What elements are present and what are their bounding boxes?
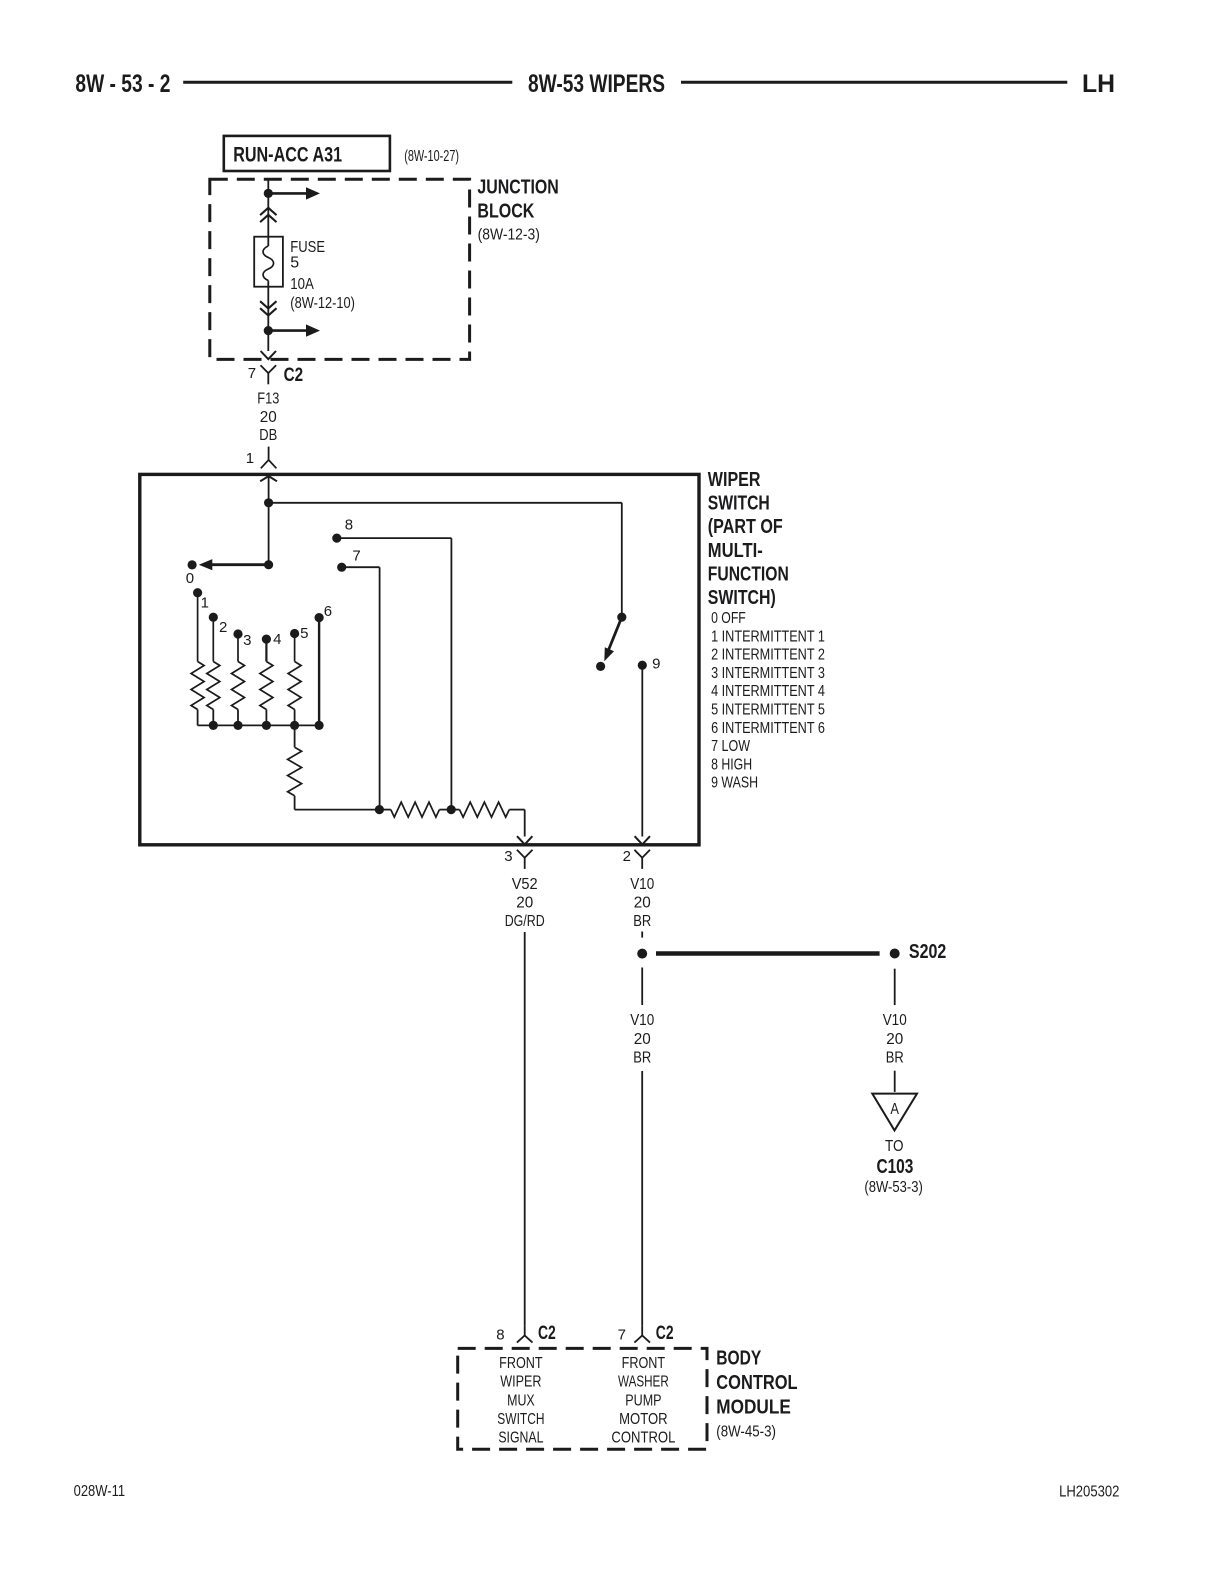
svg-text:20: 20 — [634, 895, 651, 912]
svg-text:3: 3 — [243, 632, 251, 649]
svg-text:CONTROL: CONTROL — [716, 1372, 797, 1394]
svg-text:JUNCTION: JUNCTION — [477, 176, 558, 198]
svg-text:S202: S202 — [909, 941, 946, 963]
svg-text:0 OFF: 0 OFF — [711, 610, 746, 627]
svg-text:20: 20 — [516, 895, 533, 912]
svg-text:8W - 53 - 2: 8W - 53 - 2 — [75, 70, 170, 98]
svg-text:9 WASH: 9 WASH — [711, 775, 758, 792]
svg-text:CONTROL: CONTROL — [611, 1430, 675, 1447]
svg-text:C2: C2 — [284, 365, 304, 386]
svg-text:C2: C2 — [538, 1323, 556, 1344]
svg-text:MUX: MUX — [507, 1392, 535, 1409]
svg-text:1: 1 — [201, 594, 209, 611]
svg-text:DG/RD: DG/RD — [505, 913, 545, 930]
svg-text:(8W-53-3): (8W-53-3) — [864, 1179, 922, 1196]
svg-text:SWITCH: SWITCH — [497, 1411, 544, 1428]
svg-text:PUMP: PUMP — [625, 1392, 661, 1409]
svg-text:DB: DB — [259, 427, 277, 444]
svg-text:1: 1 — [246, 450, 254, 467]
svg-text:10A: 10A — [290, 276, 314, 293]
svg-text:3: 3 — [504, 848, 512, 865]
svg-text:SIGNAL: SIGNAL — [498, 1430, 543, 1447]
svg-text:6: 6 — [324, 603, 332, 620]
svg-text:A: A — [890, 1101, 899, 1118]
svg-text:2 INTERMITTENT 2: 2 INTERMITTENT 2 — [711, 647, 825, 664]
svg-text:V10: V10 — [630, 876, 654, 893]
svg-text:7: 7 — [618, 1326, 626, 1343]
svg-text:(8W-12-3): (8W-12-3) — [478, 226, 540, 243]
svg-text:1 INTERMITTENT 1: 1 INTERMITTENT 1 — [711, 628, 825, 645]
svg-text:7 LOW: 7 LOW — [711, 738, 751, 755]
svg-text:3 INTERMITTENT 3: 3 INTERMITTENT 3 — [711, 665, 825, 682]
svg-text:(8W-10-27): (8W-10-27) — [404, 148, 459, 165]
svg-text:F13: F13 — [257, 390, 279, 407]
svg-text:7: 7 — [248, 365, 256, 382]
svg-text:LH: LH — [1082, 70, 1115, 98]
svg-text:(PART OF: (PART OF — [708, 516, 783, 538]
svg-text:MOTOR: MOTOR — [619, 1411, 668, 1428]
svg-text:V10: V10 — [630, 1012, 654, 1029]
svg-text:4 INTERMITTENT 4: 4 INTERMITTENT 4 — [711, 683, 825, 700]
svg-text:20: 20 — [260, 409, 277, 426]
svg-text:BR: BR — [633, 1049, 651, 1066]
svg-text:FRONT: FRONT — [622, 1355, 666, 1372]
svg-text:(8W-12-10): (8W-12-10) — [290, 295, 355, 312]
svg-text:9: 9 — [652, 656, 660, 673]
svg-text:SWITCH: SWITCH — [708, 493, 770, 515]
svg-text:LH205302: LH205302 — [1059, 1484, 1119, 1501]
svg-text:V10: V10 — [883, 1012, 907, 1029]
svg-text:8: 8 — [496, 1326, 504, 1343]
svg-text:2: 2 — [623, 848, 631, 865]
svg-text:20: 20 — [886, 1031, 903, 1048]
svg-text:8W-53 WIPERS: 8W-53 WIPERS — [528, 70, 665, 98]
svg-text:MULTI-: MULTI- — [708, 540, 763, 562]
svg-text:FRONT: FRONT — [499, 1355, 543, 1372]
svg-text:RUN-ACC A31: RUN-ACC A31 — [233, 144, 342, 167]
svg-text:5: 5 — [300, 625, 308, 642]
svg-text:FUNCTION: FUNCTION — [708, 563, 789, 585]
svg-text:5: 5 — [290, 255, 299, 272]
svg-text:2: 2 — [219, 619, 227, 636]
svg-text:BR: BR — [633, 913, 651, 930]
svg-text:BLOCK: BLOCK — [477, 200, 534, 222]
svg-text:7: 7 — [352, 548, 360, 565]
svg-text:MODULE: MODULE — [716, 1396, 791, 1418]
svg-text:BR: BR — [886, 1049, 904, 1066]
svg-text:028W-11: 028W-11 — [74, 1483, 126, 1500]
svg-text:(8W-45-3): (8W-45-3) — [716, 1424, 776, 1441]
svg-text:5 INTERMITTENT 5: 5 INTERMITTENT 5 — [711, 702, 825, 719]
svg-text:4: 4 — [273, 631, 281, 648]
svg-text:C103: C103 — [876, 1156, 913, 1178]
svg-text:BODY: BODY — [716, 1348, 762, 1370]
svg-text:WIPER: WIPER — [500, 1374, 541, 1391]
svg-text:WIPER: WIPER — [708, 469, 761, 491]
svg-text:V52: V52 — [512, 876, 538, 893]
svg-text:0: 0 — [186, 570, 194, 587]
svg-text:6 INTERMITTENT 6: 6 INTERMITTENT 6 — [711, 720, 825, 737]
svg-text:TO: TO — [885, 1138, 904, 1155]
svg-text:8 HIGH: 8 HIGH — [711, 756, 752, 773]
svg-text:8: 8 — [345, 516, 353, 533]
svg-text:WASHER: WASHER — [618, 1374, 669, 1391]
svg-text:C2: C2 — [656, 1323, 674, 1344]
svg-text:20: 20 — [634, 1031, 651, 1048]
svg-text:SWITCH): SWITCH) — [708, 587, 776, 609]
